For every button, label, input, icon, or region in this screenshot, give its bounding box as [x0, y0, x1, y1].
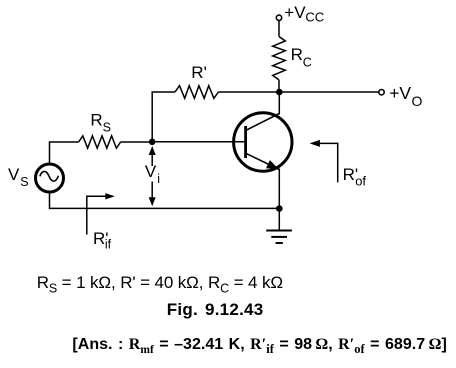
label +VCC: [284, 3, 324, 25]
arrow R'of pointer: [310, 140, 338, 183]
transistor Q1: [234, 113, 292, 171]
label +VO: [389, 83, 422, 109]
wire RC to collector node: [278, 80, 280, 92]
label R'of: [343, 165, 367, 188]
arrow R'if pointer: [87, 193, 115, 234]
svg-text:V: V: [145, 162, 157, 181]
wire base: [152, 141, 245, 143]
node emitter junction: [276, 205, 283, 212]
resistor RC: [273, 37, 286, 80]
svg-text:V: V: [8, 165, 20, 184]
label R': [191, 63, 207, 82]
arrow Vi down: [149, 182, 156, 207]
ground: [266, 209, 292, 243]
wire R' to collector node: [218, 91, 279, 93]
resistor RS: [79, 136, 121, 148]
label Vi: [145, 162, 160, 186]
caption Fig. 9.12.43: [167, 301, 264, 318]
node collector junction: [276, 89, 283, 96]
arrow Vi up: [149, 146, 156, 166]
wire RS to base node: [121, 141, 153, 143]
svg-text:if: if: [105, 237, 112, 251]
wire collector node to +VO terminal: [279, 91, 378, 93]
svg-text:CC: CC: [305, 10, 324, 25]
value line RS R' RC: [37, 274, 283, 291]
answer line: [72, 337, 446, 353]
wire collector: [278, 92, 280, 115]
svg-text:O: O: [412, 93, 423, 109]
wire node up to R' branch: [152, 92, 175, 142]
wire source top to RS: [50, 142, 79, 164]
label VS: [8, 165, 29, 189]
label RC: [291, 45, 312, 69]
svg-text:S: S: [103, 121, 111, 135]
wire bottom return: [50, 192, 280, 208]
terminal +VCC: [276, 15, 281, 20]
svg-text:+V: +V: [284, 3, 306, 22]
svg-text:S: S: [20, 175, 28, 189]
resistor R': [175, 86, 218, 99]
voltage source VS: [36, 164, 64, 192]
svg-text:R': R': [191, 63, 207, 82]
svg-text:R: R: [90, 110, 102, 129]
svg-text:C: C: [303, 56, 312, 70]
label R'if: [93, 229, 112, 251]
svg-text:i: i: [157, 172, 160, 186]
label RS: [90, 110, 111, 134]
node base junction: [149, 139, 156, 146]
terminal +VO: [379, 90, 384, 95]
wire VCC to RC: [278, 21, 280, 37]
wire emitter to ground node: [278, 169, 280, 210]
svg-text:R: R: [291, 45, 303, 64]
svg-text:of: of: [355, 174, 366, 189]
svg-text:+V: +V: [389, 83, 411, 103]
